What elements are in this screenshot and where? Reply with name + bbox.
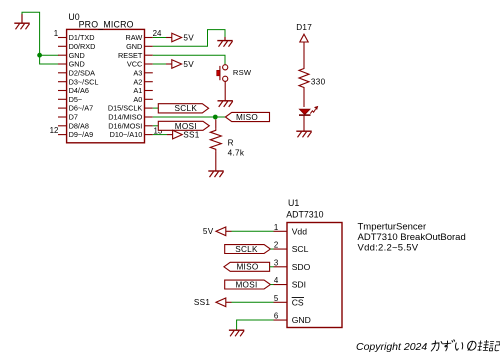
svg-text:D14/MISO: D14/MISO xyxy=(108,113,142,122)
wire MISO to SDO xyxy=(270,266,274,268)
svg-text:D16/MOSI: D16/MOSI xyxy=(108,121,142,130)
svg-text:D4/A6: D4/A6 xyxy=(69,86,89,95)
svg-text:RAW: RAW xyxy=(126,33,143,42)
svg-text:U1: U1 xyxy=(288,198,299,208)
svg-text:D3~/SCL: D3~/SCL xyxy=(69,77,99,86)
svg-text:5V: 5V xyxy=(183,34,194,43)
switch RSW xyxy=(217,65,252,82)
junction left xyxy=(37,53,42,58)
svg-text:VCC: VCC xyxy=(127,60,142,69)
svg-text:A3: A3 xyxy=(133,68,142,77)
resistor 330 xyxy=(299,67,326,89)
wire D17 to R330 xyxy=(303,42,305,67)
copyright kanji zakkicho xyxy=(477,340,500,351)
power flag 5V (RAW) xyxy=(172,33,194,42)
svg-text:5V: 5V xyxy=(183,60,194,69)
wire D14/MISO to junction and flag xyxy=(153,116,226,118)
svg-text:SS1: SS1 xyxy=(194,298,211,307)
svg-text:ADT7310: ADT7310 xyxy=(286,210,323,220)
copyright kana kazui no xyxy=(431,340,477,351)
svg-text:PRO_MICRO: PRO_MICRO xyxy=(79,20,134,30)
svg-text:24: 24 xyxy=(153,29,162,38)
svg-text:12: 12 xyxy=(50,126,59,135)
ground GND5 below LED xyxy=(296,131,311,137)
svg-text:GND: GND xyxy=(126,42,142,51)
svg-text:A1: A1 xyxy=(133,86,142,95)
wire RAW to 5V xyxy=(153,37,166,39)
IC U1 body xyxy=(287,223,342,328)
wire GND U1 to ground xyxy=(237,320,274,330)
net flag MISO (U0) xyxy=(225,112,269,122)
svg-text:GND: GND xyxy=(69,51,85,60)
svg-text:D8/A8: D8/A8 xyxy=(69,121,89,130)
svg-text:MOSI: MOSI xyxy=(175,122,197,131)
U0 left pins xyxy=(58,38,67,135)
svg-text:SCLK: SCLK xyxy=(235,245,258,254)
svg-text:2: 2 xyxy=(274,241,278,250)
wire VCC to 5V xyxy=(153,63,166,65)
power flag 5V (VCC) xyxy=(172,60,194,69)
IC U0 PRO_MICRO body xyxy=(67,29,145,142)
ground GND4 below R xyxy=(208,171,223,177)
wire 5V to Vdd xyxy=(226,230,232,232)
note text block xyxy=(358,222,466,254)
svg-text:Vdd:2.2~5.5V: Vdd:2.2~5.5V xyxy=(358,243,419,254)
svg-text:5: 5 xyxy=(274,294,279,303)
svg-text:Copyright 2024: Copyright 2024 xyxy=(356,341,427,353)
svg-text:D2/SDA: D2/SDA xyxy=(69,68,95,77)
svg-text:SCL: SCL xyxy=(292,244,309,254)
wire SCLK to SCL xyxy=(270,248,273,250)
svg-text:MISO: MISO xyxy=(236,263,258,272)
svg-text:MISO: MISO xyxy=(236,113,258,122)
net flag SCLK (U0) xyxy=(158,104,208,114)
net flag MISO (U1) xyxy=(224,262,270,271)
svg-text:SDO: SDO xyxy=(292,262,311,272)
svg-text:D17: D17 xyxy=(296,23,312,32)
svg-text:4.7k: 4.7k xyxy=(228,148,245,157)
LED D17 xyxy=(299,106,318,115)
svg-text:SDI: SDI xyxy=(292,280,306,290)
wire gnd to U0 GND pins xyxy=(22,12,59,64)
svg-text:TmperturSencer: TmperturSencer xyxy=(358,222,427,233)
net flag MOSI (U1) xyxy=(225,280,271,289)
svg-text:D1/TXD: D1/TXD xyxy=(69,33,95,42)
wire LED to ground xyxy=(303,115,305,131)
net flag SS1 (U1) xyxy=(194,298,226,307)
U0 left pin names xyxy=(69,33,99,139)
svg-text:6: 6 xyxy=(274,312,279,321)
junction MISO xyxy=(213,115,218,120)
power flag D17 top xyxy=(300,34,308,42)
svg-text:MOSI: MOSI xyxy=(235,280,257,289)
resistor R 4.7k xyxy=(210,119,245,157)
svg-text:RESET: RESET xyxy=(118,51,143,60)
svg-text:1: 1 xyxy=(54,29,58,38)
svg-text:SCLK: SCLK xyxy=(175,104,198,113)
svg-text:GND: GND xyxy=(69,60,85,69)
svg-text:5V: 5V xyxy=(203,227,214,236)
U1 CS overline xyxy=(292,297,304,299)
net flag SCLK (U1) xyxy=(225,245,271,254)
ground GND3 below RSW xyxy=(218,101,233,107)
svg-text:D6~/A7: D6~/A7 xyxy=(69,104,94,113)
svg-text:A2: A2 xyxy=(133,77,142,86)
power flag 5V (U1 Vdd) xyxy=(203,227,226,236)
wire RSW to ground xyxy=(224,81,226,100)
svg-text:Vdd: Vdd xyxy=(292,226,308,236)
svg-text:D10~/A10: D10~/A10 xyxy=(110,130,143,139)
U0 right pins xyxy=(145,38,153,135)
U0 right pin names xyxy=(108,33,143,139)
svg-text:330: 330 xyxy=(311,77,326,86)
svg-text:D7: D7 xyxy=(69,113,78,122)
ground GND1 top-left xyxy=(14,14,29,30)
svg-text:GND: GND xyxy=(292,315,311,325)
U1 pin numbers xyxy=(274,223,279,321)
U1 pins xyxy=(274,231,288,320)
wire GND pin2 to ground xyxy=(153,30,225,47)
ground GND6 below U1 xyxy=(229,330,244,336)
svg-text:D0/RXD: D0/RXD xyxy=(69,42,96,51)
svg-text:1: 1 xyxy=(274,223,278,232)
net flag SS1 (U0) xyxy=(173,130,200,139)
svg-text:CS: CS xyxy=(292,297,304,307)
svg-text:R: R xyxy=(228,139,234,148)
svg-text:D9~/A9: D9~/A9 xyxy=(69,130,94,139)
wire RESET to RSW xyxy=(153,55,225,64)
wire D16/MOSI to flag xyxy=(153,125,159,127)
svg-text:D5~: D5~ xyxy=(69,95,83,104)
svg-text:RSW: RSW xyxy=(233,68,252,77)
svg-text:A0: A0 xyxy=(133,95,142,104)
ground GND2 top-right xyxy=(217,37,232,47)
svg-text:SS1: SS1 xyxy=(183,131,200,140)
net flag MOSI (U0) xyxy=(158,121,209,131)
svg-text:D15/SCLK: D15/SCLK xyxy=(108,104,143,113)
wire R to ground xyxy=(215,151,217,171)
U1 pin names xyxy=(292,226,311,325)
wire D15/SCLK to flag xyxy=(153,107,159,109)
svg-text:4: 4 xyxy=(274,276,279,285)
wire SS1 to CS xyxy=(226,301,232,303)
wire MOSI to SDI xyxy=(270,284,273,286)
svg-text:3: 3 xyxy=(274,258,279,267)
wire D10/A10 to SS1 xyxy=(153,134,167,136)
wire R330 to LED xyxy=(303,89,305,107)
svg-text:ADT7310 BreakOutBorad: ADT7310 BreakOutBorad xyxy=(358,232,466,243)
